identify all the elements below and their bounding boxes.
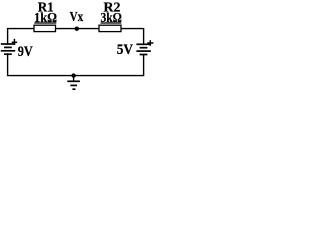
svg-text:1kΩ: 1kΩ: [34, 11, 57, 26]
svg-text:3kΩ: 3kΩ: [100, 11, 122, 26]
svg-text:Vx: Vx: [70, 10, 84, 25]
svg-text:5V: 5V: [117, 42, 134, 58]
svg-text:9V: 9V: [18, 44, 33, 60]
